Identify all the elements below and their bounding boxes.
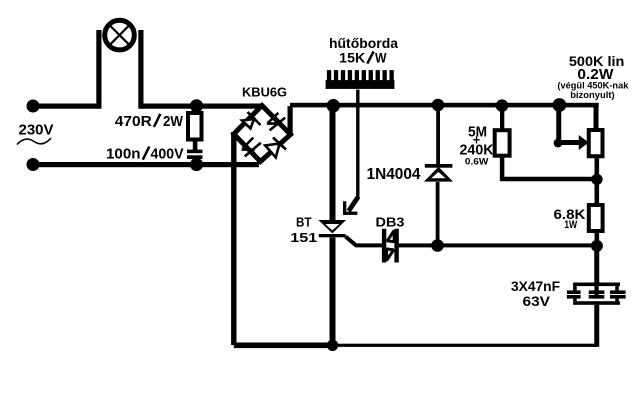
wire: bottom-left terminal to bridge bottom corner xyxy=(33,162,259,167)
resistor R3 6.8K xyxy=(589,205,603,231)
bridge rectifier KBU6G body xyxy=(234,106,291,162)
terminal top-left xyxy=(27,100,40,113)
diac DB3 xyxy=(382,229,399,263)
svg-text:1N4004: 1N4004 xyxy=(367,166,421,183)
svg-text:151: 151 xyxy=(290,231,317,245)
node: junction rail to 1N4004 xyxy=(432,99,445,112)
heatsink symbol xyxy=(326,70,395,89)
wire: rail down to 1N4004 cathode xyxy=(436,105,440,164)
node: junction pot bottom / 5M wire xyxy=(591,174,602,185)
wire: C2 down to bottom rail xyxy=(594,305,599,347)
wire: bottom rail left segment xyxy=(234,343,333,349)
AC source sine symbol xyxy=(17,138,51,145)
diode D-BL of bridge xyxy=(242,138,261,157)
wire: BT151 gate to DB3 xyxy=(346,237,384,246)
annotation arrow from heatsink to BT151 xyxy=(343,90,360,215)
wire: 6.8K down to gate wire junction xyxy=(595,230,600,246)
capacitor C2 3x47nF xyxy=(567,283,626,305)
diode D-TL of bridge xyxy=(242,112,261,129)
svg-text:15K: 15K xyxy=(339,50,365,66)
wire: top-left terminal to lamp xyxy=(33,104,99,109)
wire: rail down to wiper level xyxy=(556,105,561,143)
lamp LA1 (load) xyxy=(105,20,135,50)
wire: rail down to 5M+240K xyxy=(500,105,504,131)
svg-text:KBU6G: KBU6G xyxy=(242,86,287,100)
node: junction rail to pot wiper xyxy=(553,98,567,112)
wire: BT151 cathode down to bottom rail xyxy=(330,238,336,348)
svg-text:W: W xyxy=(375,50,387,66)
wiper arrowhead xyxy=(579,135,589,150)
wire: rail down to BT151 anode xyxy=(330,106,336,221)
node: junction below C1 xyxy=(190,158,203,171)
svg-text:bizonyult): bizonyult) xyxy=(570,90,615,101)
node: junction above 470R xyxy=(190,99,203,112)
diode D1 1N4004 xyxy=(424,164,453,182)
wire: R1 to C1 xyxy=(193,140,198,151)
thyristor BT151 xyxy=(318,220,346,237)
svg-text:470R: 470R xyxy=(115,113,152,130)
svg-text:hűtőborda: hűtőborda xyxy=(329,35,398,51)
svg-text:0.6W: 0.6W xyxy=(465,156,489,166)
wire: bridge left corner down to bottom rail xyxy=(231,132,236,345)
node: junction rail to 5M+240K xyxy=(496,99,509,112)
label 15K/W xyxy=(339,50,387,66)
svg-text:BT: BT xyxy=(296,216,312,230)
svg-text:1W: 1W xyxy=(564,219,577,231)
capacitor C1 100n/400V xyxy=(187,150,203,159)
label 100n/400V xyxy=(106,146,184,163)
wire: junction down to C2 xyxy=(594,246,599,283)
node: junction gate wire / 1N4004 xyxy=(431,239,444,252)
svg-text:400V: 400V xyxy=(151,146,184,163)
wire: 1N4004 anode down to gate wire xyxy=(436,182,440,245)
label 470R/2W xyxy=(115,113,184,130)
wire: bottom rail right segment xyxy=(332,344,597,347)
node: junction gate wire / cap C2 xyxy=(591,240,603,252)
svg-text:100n: 100n xyxy=(106,146,141,163)
svg-text:3X47nF: 3X47nF xyxy=(511,278,560,294)
wire: wiper horizontal xyxy=(558,140,580,145)
wire: lamp right lead xyxy=(138,30,143,109)
wire: bridge right corner up to rail xyxy=(288,106,293,135)
svg-text:DB3: DB3 xyxy=(376,214,405,229)
wire: 5M+240K down and right to pot bottom xyxy=(502,156,597,179)
node: wiper corner dot xyxy=(554,139,563,148)
svg-text:63V: 63V xyxy=(523,293,551,309)
resistor R2 5M+240K xyxy=(495,130,510,156)
node: junction rail to BT151 xyxy=(327,99,340,112)
svg-text:2W: 2W xyxy=(163,113,184,130)
terminal bottom-left xyxy=(27,158,40,171)
wire: pot bottom to 6.8K xyxy=(595,156,600,205)
wire: main top rail xyxy=(290,103,599,108)
node: junction bottom rail / BT151 cathode xyxy=(327,340,338,351)
resistor R1 470R/2W xyxy=(188,113,202,140)
diode D-BR of bridge xyxy=(265,138,286,158)
wire: DB3 to junction under 1N4004 xyxy=(399,243,598,247)
potentiometer P1 500K xyxy=(589,130,603,156)
svg-text:230V: 230V xyxy=(19,123,54,139)
wire: rail corner down to pot top xyxy=(594,105,599,130)
diode D-TR of bridge xyxy=(267,113,285,131)
wire: lamp left lead xyxy=(96,30,101,109)
wire: lamp to bridge top corner xyxy=(141,104,262,109)
